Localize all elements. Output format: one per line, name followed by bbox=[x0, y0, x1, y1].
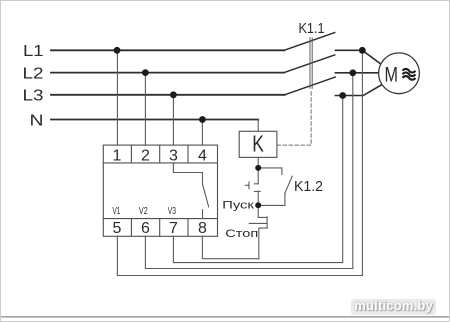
wire node A to K1.2 top bbox=[258, 168, 282, 175]
wire L3 horizontal bbox=[51, 94, 285, 96]
svg-text:7: 7 bbox=[169, 220, 178, 237]
stop button bridge bbox=[266, 217, 268, 228]
internal wire to terminal 8 bbox=[202, 210, 204, 219]
svg-text:8: 8 bbox=[198, 220, 207, 237]
relay box outline bbox=[103, 145, 217, 236]
coil K box bbox=[239, 131, 277, 157]
stop button wire lower bbox=[259, 228, 267, 259]
wire drop L3 to terminal 3 bbox=[172, 95, 174, 145]
wire K1.2 bottom to node B bbox=[258, 193, 285, 205]
start button wire lower bbox=[257, 191, 259, 205]
wire terminal 6 to L2 sense bbox=[145, 73, 352, 269]
node L3 tap bbox=[170, 91, 177, 98]
K1.1 linkage bar bbox=[309, 38, 311, 89]
svg-text:6: 6 bbox=[141, 220, 150, 237]
svg-text:N: N bbox=[30, 112, 44, 129]
svg-text:3: 3 bbox=[169, 147, 178, 164]
svg-text:V1: V1 bbox=[112, 206, 120, 217]
node N tap bbox=[199, 116, 206, 123]
wire drop N to terminal 4 bbox=[201, 120, 203, 146]
svg-text:1: 1 bbox=[113, 147, 122, 164]
wire L2 fixed side to motor bbox=[335, 72, 379, 74]
wire drop L2 to terminal 2 bbox=[144, 73, 146, 146]
motor circle bbox=[379, 53, 420, 94]
svg-text:V2: V2 bbox=[139, 206, 148, 217]
svg-text:K: K bbox=[252, 130, 264, 156]
wire drop L1 to terminal 1 bbox=[116, 50, 118, 145]
start button contact stubs bbox=[254, 183, 258, 185]
wire terminal 7 to L3 sense bbox=[173, 96, 342, 263]
svg-text:2: 2 bbox=[141, 147, 150, 164]
wire N to coil K bbox=[257, 120, 259, 132]
terminal dividers bottom row bbox=[130, 219, 132, 237]
svg-text:L1: L1 bbox=[23, 43, 44, 60]
wire L3 fixed side to motor bbox=[335, 84, 382, 95]
start button actuator bbox=[248, 182, 250, 189]
motor waves bbox=[403, 69, 416, 80]
contact K1.2 blade bbox=[285, 176, 292, 193]
terminal dividers top row bbox=[130, 145, 132, 163]
wire N horizontal bbox=[51, 119, 258, 121]
svg-text:K1.2: K1.2 bbox=[294, 178, 323, 195]
bottom separator line bbox=[1, 316, 449, 318]
svg-text:V3: V3 bbox=[168, 206, 176, 217]
node A coil bottom bbox=[255, 165, 261, 171]
wire L1 horizontal bbox=[51, 49, 284, 51]
wire L1 fixed side to motor bbox=[335, 50, 381, 64]
contact K1.1 blade phase L3 bbox=[285, 77, 336, 95]
internal relay contact blade bbox=[203, 185, 209, 207]
svg-text:4: 4 bbox=[198, 147, 207, 164]
wire terminal 5 to L1 sense bbox=[117, 50, 362, 275]
node L2 tap bbox=[142, 69, 149, 76]
node L3 sense bbox=[339, 92, 346, 99]
stop button wire upper bbox=[258, 205, 267, 217]
node B start bottom bbox=[255, 202, 261, 208]
dashed link to coil K bbox=[277, 90, 311, 146]
svg-text:K1.1: K1.1 bbox=[299, 20, 325, 37]
internal wire terminal 3 to switch bbox=[173, 163, 202, 185]
svg-text:Стоп: Стоп bbox=[225, 228, 258, 240]
node L1 sense bbox=[359, 47, 366, 54]
svg-text:Пуск: Пуск bbox=[222, 199, 254, 211]
contact K1.1 blade phase L2 bbox=[284, 55, 335, 73]
svg-text:L2: L2 bbox=[23, 65, 44, 82]
svg-text:L3: L3 bbox=[23, 88, 44, 105]
svg-text:5: 5 bbox=[113, 220, 122, 237]
stop button actuator bbox=[249, 222, 267, 224]
wire L2 horizontal bbox=[51, 72, 284, 74]
watermark bbox=[351, 299, 436, 315]
node L2 sense bbox=[349, 69, 356, 76]
start button wire upper bbox=[257, 168, 259, 184]
svg-text:M: M bbox=[385, 62, 399, 86]
contact K1.1 blade phase L1 bbox=[284, 33, 335, 51]
wire terminal 8 to stop button bbox=[202, 236, 258, 259]
node L1 tap bbox=[114, 47, 121, 54]
wire coil K to node A bbox=[257, 157, 259, 168]
